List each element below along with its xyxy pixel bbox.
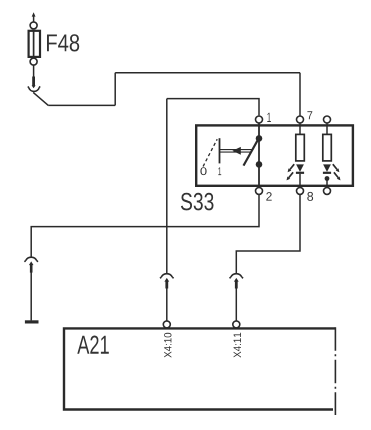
label X4:10 (rotated) [164,333,171,358]
connector socket arc (opening down) on ground branch [24,257,38,262]
connector pin (male, pointing up) X4:10 [164,278,169,289]
switch contact dot lower [256,161,263,168]
wire vertical riser [114,73,116,106]
fuse F48 body [29,31,40,57]
connector socket arc (opening down) X4:10 [160,274,174,279]
switch position bar [219,138,221,163]
wire feed to fuse with arrow tip [32,12,36,22]
label F48 [47,34,79,51]
ground bar [25,320,39,323]
unlabeled bottom pin circle [324,187,331,194]
lamp 1 LED cathode bar [296,172,304,174]
pin 7 label [307,111,312,119]
pin 1 circle [256,116,263,123]
label X4:11 (rotated) [234,333,241,358]
label A21 [77,336,109,354]
lamp 2 wire to bottom pin [326,181,328,188]
wire horizontal top run to pin 7 [115,72,300,74]
lamp 1 resistor body [296,134,305,161]
wire to ground [30,273,32,321]
connector pin (male, pointing up) on ground branch [29,261,34,272]
lamp 1 wire from pin 7 into box [299,123,301,134]
wire pin to X4:11 circle [235,289,237,321]
fuse F48 terminal circle bottom [30,58,37,65]
switch contact dot upper [256,135,263,142]
pin 2 circle [256,187,263,194]
switch box S33 [196,125,353,185]
wire drop to pin 7 [299,73,301,116]
control unit A21 box [64,328,335,409]
wire diagonal from connector [33,92,48,105]
lamp 2 light ray arrows (right) [333,164,341,180]
lamp 2 wire from top pin into box [326,123,328,134]
connector pin (male, pointing down) below F48 [32,77,36,89]
lamp 1 LED triangle [296,164,304,172]
switch actuator double line [220,150,252,153]
pin 8 circle [297,187,304,194]
wire pin 8 down and left to X4:11 [236,195,300,274]
wire fuse bottom to connector pin [33,65,35,77]
switch position label 1 [218,167,221,175]
switch lever [244,138,259,165]
lamp 1 wire to pin 8 [299,174,301,188]
pin 8 label [307,192,313,201]
lamp 2 resistor body [323,134,332,161]
switch position dashed line (position 0) [203,139,217,166]
switch position label 0 [200,167,206,175]
pin 1 label [267,113,271,122]
connector socket arc below F48 (opening up) [28,86,40,91]
wire pin 1 up and left [167,99,259,116]
lamp 2 LED triangle [323,164,331,172]
pin 2 label [266,192,271,201]
A21 dash-dot right edge [334,327,336,415]
unlabeled top pin circle [324,116,331,123]
wire vertical to A21 X4:10 [166,99,168,274]
wire pin1 through switch to pin 2 [258,123,260,187]
lamp 2 junction dot [325,176,330,181]
X4:11 terminal circle [233,321,240,328]
X4:10 terminal circle [163,321,170,328]
connector pin (male, pointing up) X4:11 [234,278,239,289]
connector socket arc (opening down) X4:11 [230,274,244,279]
wire horizontal lower run [48,104,115,106]
lamp 2 LED cathode bar [323,172,331,174]
lamp 1 light ray arrows (left) [287,164,295,180]
switch actuator arrow [232,147,240,155]
wire pin to X4:10 circle [166,289,168,321]
wire pin 2 down and left to ground [31,195,259,258]
fuse F48 terminal circle top [30,22,37,29]
label S33 [181,193,214,211]
pin 7 circle [297,116,304,123]
